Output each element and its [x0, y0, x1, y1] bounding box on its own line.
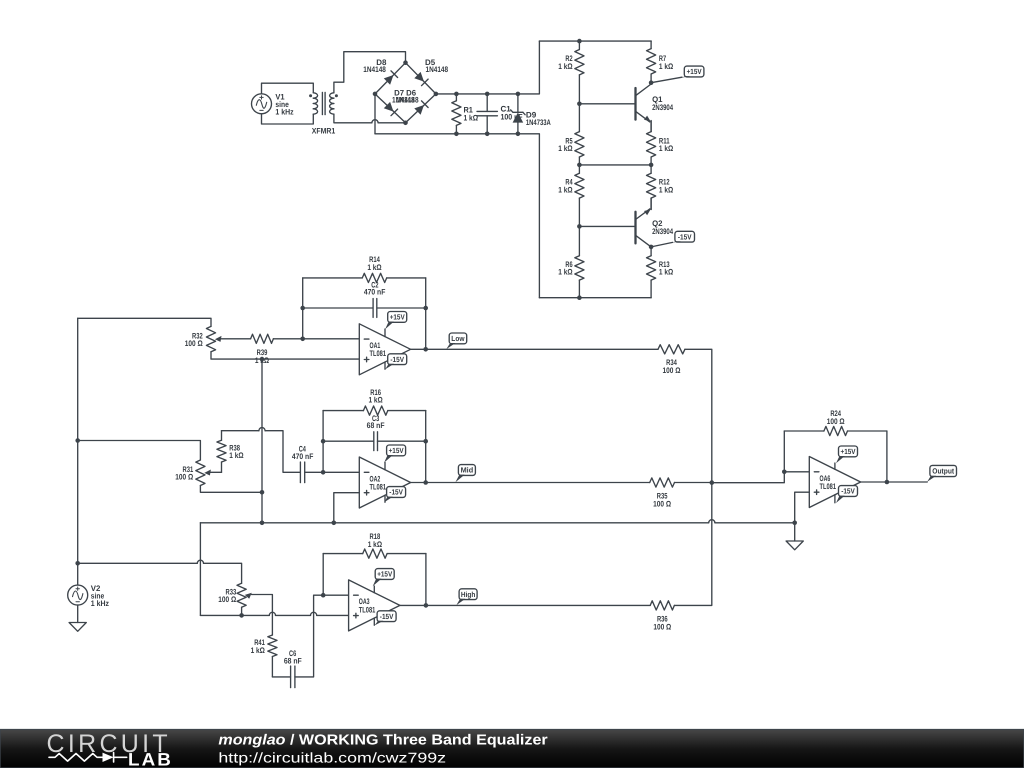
wire OA1 V- pin: [384, 362, 386, 369]
node OA3 feedback junction: [321, 593, 326, 598]
wire bridge diamond edges: [375, 63, 436, 123]
svg-text:1 kΩ: 1 kΩ: [367, 263, 382, 272]
svg-text:1 kΩ: 1 kΩ: [659, 62, 674, 71]
node bridge top corner: [403, 60, 408, 65]
wire input left rail: [77, 318, 79, 585]
wire C4 to OA2 inverting input: [305, 471, 360, 473]
svg-text:100 Ω: 100 Ω: [185, 339, 203, 348]
wire OA6 V- pin: [834, 495, 836, 503]
resistor R2 1 kOhm: [558, 41, 584, 104]
resistor R13 1 kOhm: [647, 247, 674, 298]
svg-text:68 nF: 68 nF: [284, 657, 302, 666]
node common rail central: [260, 521, 265, 526]
svg-text:1N4733A: 1N4733A: [526, 118, 551, 127]
svg-text:monglao / WORKING Three Band E: monglao / WORKING Three Band Equalizer: [218, 732, 548, 748]
wire C6 to OA3 inverting input: [295, 595, 349, 677]
wire R32 bottom to OA1 non-inverting input: [211, 352, 359, 359]
power flag +15V OA2: [384, 445, 406, 463]
node Q1 collector +15V: [649, 80, 654, 85]
wire R33 wiper to R41: [252, 595, 273, 636]
resistor R5 1 kOhm: [558, 104, 584, 165]
wire R41 to C6: [272, 676, 290, 678]
power flag -15V OA1: [385, 354, 407, 370]
node OA6 feedback junction: [782, 470, 787, 475]
svg-text:1 kΩ: 1 kΩ: [558, 185, 573, 194]
svg-text:100 Ω: 100 Ω: [218, 595, 236, 604]
resistor R4 1 kOhm: [558, 165, 584, 227]
wire negative rail to regulator: [375, 134, 539, 298]
op-amp OA6 TL081: [809, 457, 860, 508]
svg-text:-15V: -15V: [678, 232, 692, 241]
power flag +15V OA6: [836, 446, 858, 463]
diode D5 1N4148: [414, 58, 448, 86]
wire common rail down to OA3 + input: [199, 523, 201, 616]
svg-text:470 nF: 470 nF: [364, 288, 386, 297]
node OA2 feedback junction: [321, 470, 326, 475]
node Q1 base rail: [577, 102, 582, 107]
node C3 left: [321, 439, 326, 444]
svg-text:TL081: TL081: [370, 482, 387, 491]
op-amp OA1 TL081: [359, 324, 410, 375]
svg-text:-15V: -15V: [380, 612, 394, 621]
wire OA3 output to R36: [400, 604, 650, 606]
diode D7 1N4148: [384, 102, 398, 116]
wire OA2 feedback right vertical: [425, 411, 427, 483]
svg-text:-15V: -15V: [389, 488, 403, 497]
wire R34 to summing node: [685, 349, 712, 482]
power flag +15V OA3: [373, 569, 395, 587]
wire OA6 output: [861, 481, 928, 483]
resistor R18 1 kOhm feedback: [323, 532, 426, 558]
svg-text:XFMR1: XFMR1: [312, 127, 336, 136]
node C1 bottom: [485, 132, 490, 137]
svg-text:-15V: -15V: [390, 355, 404, 364]
ground below OA6: [786, 541, 803, 550]
capacitor C1 100uF: [477, 94, 523, 134]
wire OA1 feedback right vertical: [425, 278, 427, 349]
svg-text:1 kHz: 1 kHz: [275, 107, 293, 116]
wire OA2 non-inverting input down: [334, 493, 360, 523]
svg-text:Output: Output: [932, 467, 954, 476]
svg-text:+15V: +15V: [389, 446, 404, 455]
wire R35 to summing node: [675, 482, 712, 484]
node common rail OA6 ground: [792, 521, 797, 526]
wire bridge left corner down to negative rail: [374, 94, 376, 134]
wire V1 to XFMR1 primary loop: [262, 83, 314, 124]
svg-text:1N4148: 1N4148: [363, 65, 386, 74]
node central vertical top: [260, 357, 265, 362]
resistor R16 1 kOhm feedback: [323, 388, 426, 415]
node OA1 feedback junction: [300, 337, 305, 342]
wire central vertical (OA1 + net): [261, 359, 263, 523]
transistor Q1 2N3904: [636, 83, 674, 132]
svg-text:Mid: Mid: [461, 466, 474, 475]
svg-text:1 kΩ: 1 kΩ: [229, 451, 244, 460]
wire -15V takeoff: [651, 242, 673, 247]
svg-text:1 kHz: 1 kHz: [91, 599, 109, 608]
svg-text:1 kΩ: 1 kΩ: [659, 144, 674, 153]
wire mid rail R5 R11: [579, 164, 651, 166]
power flag -15V OA2: [384, 487, 406, 503]
node C1 top: [485, 92, 490, 97]
wire R31 bottom to central vertical: [200, 486, 262, 493]
node R31 bottom junction: [260, 490, 265, 495]
svg-text:100 Ω: 100 Ω: [653, 622, 671, 631]
resistor R12 1 kOhm: [647, 165, 674, 210]
resistor R7 1 kOhm: [647, 41, 674, 83]
resistor R35 100 Ohm: [650, 478, 675, 509]
wire Q2 base rail: [579, 225, 635, 227]
node R33 bottom: [239, 613, 244, 618]
svg-text:2N3904: 2N3904: [652, 227, 673, 236]
capacitor C2 470nF feedback: [303, 280, 426, 317]
svg-text:1 kΩ: 1 kΩ: [464, 114, 479, 123]
diode D6 1N4148: [392, 88, 428, 114]
svg-text:High: High: [461, 590, 476, 599]
power flag -15V regulator: [672, 231, 694, 242]
node mid rail left: [577, 163, 582, 168]
svg-text:1 kΩ: 1 kΩ: [558, 268, 573, 277]
capacitor C6 68nF: [284, 649, 302, 688]
node R1 bottom: [454, 132, 459, 137]
node OA6 output feedback: [885, 480, 890, 485]
resistor R6 1 kOhm: [558, 226, 584, 297]
svg-text:68 nF: 68 nF: [367, 421, 385, 430]
resistor R39 1 kOhm: [251, 334, 274, 365]
power flag +15V regulator: [682, 66, 704, 78]
resistor R14 1 kOhm feedback: [303, 255, 426, 283]
resistor R11 1 kOhm: [647, 121, 674, 165]
node OA3 output feedback: [424, 603, 429, 608]
net flag High: [456, 589, 477, 605]
potentiometer R31 100 Ohm: [175, 460, 211, 486]
transformer XFMR1: [309, 92, 338, 135]
capacitor C3 68nF feedback: [323, 414, 426, 451]
svg-text:100 Ω: 100 Ω: [827, 417, 845, 426]
wire OA6 feedback right vertical: [886, 431, 888, 482]
wire positive rail bridge to regulator: [436, 41, 540, 94]
resistor R36 100 Ohm: [650, 601, 674, 632]
resistor R1 1 kOhm: [452, 94, 479, 134]
ground below V2: [69, 623, 86, 632]
wire OA2 V+ pin: [384, 462, 386, 469]
resistor R41 1 kOhm: [251, 635, 277, 677]
node left rail Mid takeoff: [75, 438, 80, 443]
node summing junction: [710, 480, 715, 485]
svg-text:1N4148: 1N4148: [396, 96, 419, 105]
wire OA3 V- pin: [373, 618, 375, 625]
svg-text:TL081: TL081: [370, 349, 387, 358]
svg-text:100 Ω: 100 Ω: [663, 366, 681, 375]
wire XFMR1 secondary bottom to bridge AC- (hop over left-corner wire): [334, 114, 406, 123]
wire R38 top to C4 (hop over central vertical): [222, 428, 301, 473]
wire OA2 V- pin: [384, 495, 386, 502]
wire regulator top rail: [539, 40, 651, 42]
net flag Mid: [455, 465, 475, 483]
node left rail High takeoff: [75, 561, 80, 566]
wire OA3 feedback right vertical: [425, 554, 427, 606]
svg-text:+15V: +15V: [377, 570, 392, 579]
node top rail R2: [577, 39, 582, 44]
voltage source V1 sine 1 kHz: [252, 92, 294, 116]
power flag -15V OA3: [375, 611, 397, 626]
wire OA6 feedback left vertical: [783, 431, 785, 472]
wire rail to R31: [78, 441, 201, 461]
capacitor C4 470nF: [292, 444, 314, 482]
net flag Output: [927, 465, 956, 481]
wire OA3 V+ pin: [373, 586, 375, 593]
wire +15V takeoff: [651, 77, 682, 83]
wire OA2 feedback left vertical: [322, 411, 324, 473]
wire Q1 base rail: [579, 103, 635, 105]
svg-text:http://circuitlab.com/cwz799z: http://circuitlab.com/cwz799z: [218, 749, 446, 765]
svg-text:Low: Low: [451, 334, 464, 343]
wire XFMR1 secondary top to bridge AC+: [334, 52, 406, 93]
svg-text:-15V: -15V: [841, 487, 855, 496]
resistor R34 100 Ohm: [658, 345, 685, 376]
wire V2 to R33 (hop over OA3 + vertical): [78, 560, 242, 583]
wire R33 bottom to + line: [241, 607, 243, 615]
wire OA3 feedback left vertical: [322, 554, 324, 596]
resistor R38 1 kOhm: [217, 431, 244, 473]
potentiometer R33 100 Ohm: [218, 583, 252, 607]
node C3 right: [423, 439, 428, 444]
wire OA3 non-inverting line (hops over R41 and C6 verticals): [200, 612, 348, 615]
svg-text:LAB: LAB: [128, 749, 173, 768]
svg-text:+15V: +15V: [841, 447, 856, 456]
wire R39 to OA1 inverting input: [273, 338, 359, 340]
resistor R24 100 Ohm feedback: [784, 409, 887, 436]
svg-text:1 kΩ: 1 kΩ: [368, 396, 383, 405]
potentiometer R32 100 Ohm: [185, 326, 222, 351]
svg-text:+15V: +15V: [687, 67, 702, 76]
svg-text:1 kΩ: 1 kΩ: [368, 540, 383, 549]
svg-text:1 kΩ: 1 kΩ: [659, 185, 674, 194]
node D9 bottom: [516, 132, 521, 137]
node common rail OA2: [332, 521, 337, 526]
zener diode D9 1N4733A: [511, 94, 551, 134]
svg-text:TL081: TL081: [359, 605, 376, 614]
wire OA1 feedback left vertical: [302, 278, 304, 339]
svg-text:1 kΩ: 1 kΩ: [558, 62, 573, 71]
wire OA2 output to R35: [411, 482, 650, 484]
voltage source V2 sine 1 kHz: [68, 584, 109, 608]
node OA1 output feedback: [423, 347, 428, 352]
wire R31 wiper to R38: [209, 471, 221, 473]
CircuitLab logo resistor and diode symbol: [49, 753, 127, 762]
wire OA6 V+ pin: [834, 463, 836, 469]
wire rail to R32: [78, 318, 211, 326]
diode D8 1N4148: [363, 58, 397, 85]
wire V2 to ground: [77, 605, 79, 622]
wire summing node to OA6 inverting input: [712, 472, 810, 483]
node bottom rail R6: [577, 295, 582, 300]
node C2 right: [423, 306, 428, 311]
power flag -15V OA6: [836, 486, 858, 503]
node OA2 output feedback: [423, 480, 428, 485]
svg-text:100 Ω: 100 Ω: [653, 499, 671, 508]
svg-text:2N3904: 2N3904: [652, 103, 673, 112]
node bridge bottom corner: [403, 121, 408, 126]
svg-text:1 kΩ: 1 kΩ: [558, 144, 573, 153]
wire OA6 non-inverting input down: [795, 492, 810, 541]
power flag +15V OA1: [385, 312, 407, 330]
footer bar: [0, 730, 1024, 768]
op-amp OA3 TL081: [349, 580, 400, 631]
node bridge right corner: [434, 92, 439, 97]
op-amp OA2 TL081: [359, 457, 410, 508]
svg-text:470 nF: 470 nF: [292, 452, 314, 461]
node Q2 collector -15V: [649, 245, 654, 250]
node mid rail right: [649, 163, 654, 168]
wire regulator bottom rail: [539, 297, 651, 299]
wire R36 to summing node: [674, 483, 711, 606]
svg-text:100 Ω: 100 Ω: [175, 473, 193, 482]
svg-text:TL081: TL081: [820, 482, 837, 491]
wire common non-inverting rail (hop over summing vertical): [200, 520, 794, 523]
transistor Q2 2N3904: [636, 198, 674, 247]
wire OA1 output to R34: [411, 348, 658, 350]
svg-text:1N4148: 1N4148: [426, 65, 449, 74]
svg-text:1 kΩ: 1 kΩ: [659, 268, 674, 277]
node bridge left corner: [373, 92, 378, 97]
svg-text:+15V: +15V: [390, 313, 405, 322]
wire OA1 V+ pin: [384, 329, 386, 337]
node C2 left: [300, 306, 305, 311]
wire R32 wiper to R39: [220, 338, 251, 340]
node R1 top: [454, 92, 459, 97]
node Q2 base rail: [577, 224, 582, 229]
svg-text:1 kΩ: 1 kΩ: [251, 646, 266, 655]
net flag Low: [446, 333, 466, 349]
node D9 top: [516, 92, 521, 97]
